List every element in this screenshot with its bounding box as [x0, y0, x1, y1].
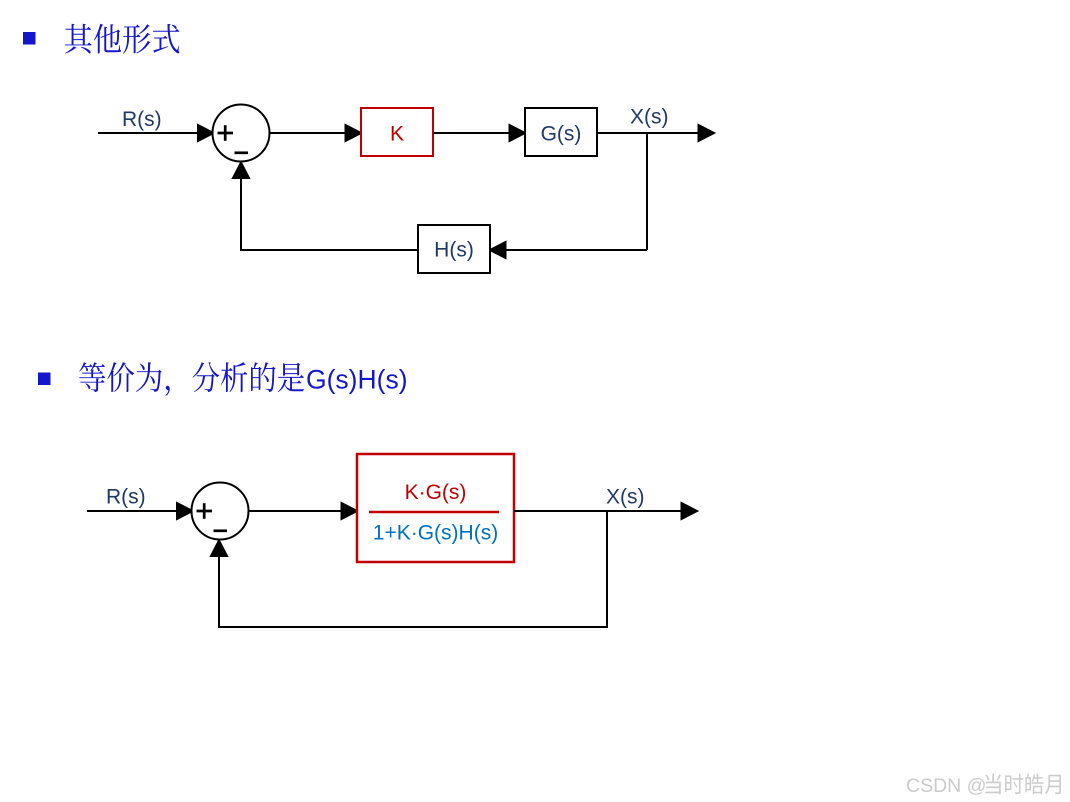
wire: summing junction to K block	[270, 125, 362, 141]
wire: H(s) output left segment	[240, 249, 418, 251]
title text 2: 等价为，分析的是	[79, 362, 304, 396]
wire: feedback up into summing junction (diagram 2)	[211, 541, 227, 629]
wire: feedback right segment into H(s)	[490, 242, 647, 258]
wire: G(s) to output X(s)	[597, 125, 714, 141]
svg-text:1+K·G(s)H(s): 1+K·G(s)H(s)	[373, 522, 498, 545]
wire: R(s) input to summing junction (diagram 2)	[87, 503, 193, 519]
svg-text:CSDN @: CSDN @	[906, 775, 986, 797]
summing junction (diagram 2)	[192, 483, 249, 540]
fraction bar	[369, 511, 499, 514]
wire: feedback up into summing junction (diagram 1)	[233, 163, 249, 252]
block H(s)	[418, 225, 490, 273]
minus sign (diagram 2)	[214, 529, 228, 532]
svg-text:K: K	[390, 123, 404, 146]
title text 1: 其他形式	[65, 24, 180, 54]
wire: summing junction to closed-loop block	[249, 503, 358, 519]
svg-text:G(s): G(s)	[541, 123, 582, 146]
block G(s)	[525, 108, 597, 156]
closed-loop transfer function block (red)	[357, 454, 514, 562]
wire: R(s) input to summing junction (diagram 1)	[98, 125, 214, 141]
svg-text:K·G(s): K·G(s)	[405, 481, 467, 504]
bullet square 2	[38, 373, 51, 386]
wire: block to output X(s) (diagram 2)	[514, 503, 697, 519]
plus sign	[218, 125, 234, 141]
block K (red)	[361, 108, 433, 156]
bullet square 1	[23, 32, 36, 45]
svg-text:X(s): X(s)	[630, 106, 669, 129]
wire: feedback takeoff down (diagram 2)	[606, 511, 608, 627]
svg-text:H(s): H(s)	[434, 239, 474, 262]
svg-text:X(s): X(s)	[606, 486, 645, 509]
minus sign	[235, 151, 249, 154]
summing junction (diagram 1)	[213, 105, 270, 162]
watermark 当时皓月	[985, 774, 1061, 795]
svg-text:R(s): R(s)	[106, 486, 146, 509]
svg-text:R(s): R(s)	[122, 108, 162, 131]
plus sign (diagram 2)	[197, 503, 213, 519]
wire: feedback bottom segment (diagram 2)	[218, 626, 608, 628]
svg-text:G(s)H(s): G(s)H(s)	[306, 365, 408, 395]
wire: K block to G(s) block	[433, 125, 525, 141]
wire: feedback takeoff down from node at x=647	[646, 133, 648, 250]
